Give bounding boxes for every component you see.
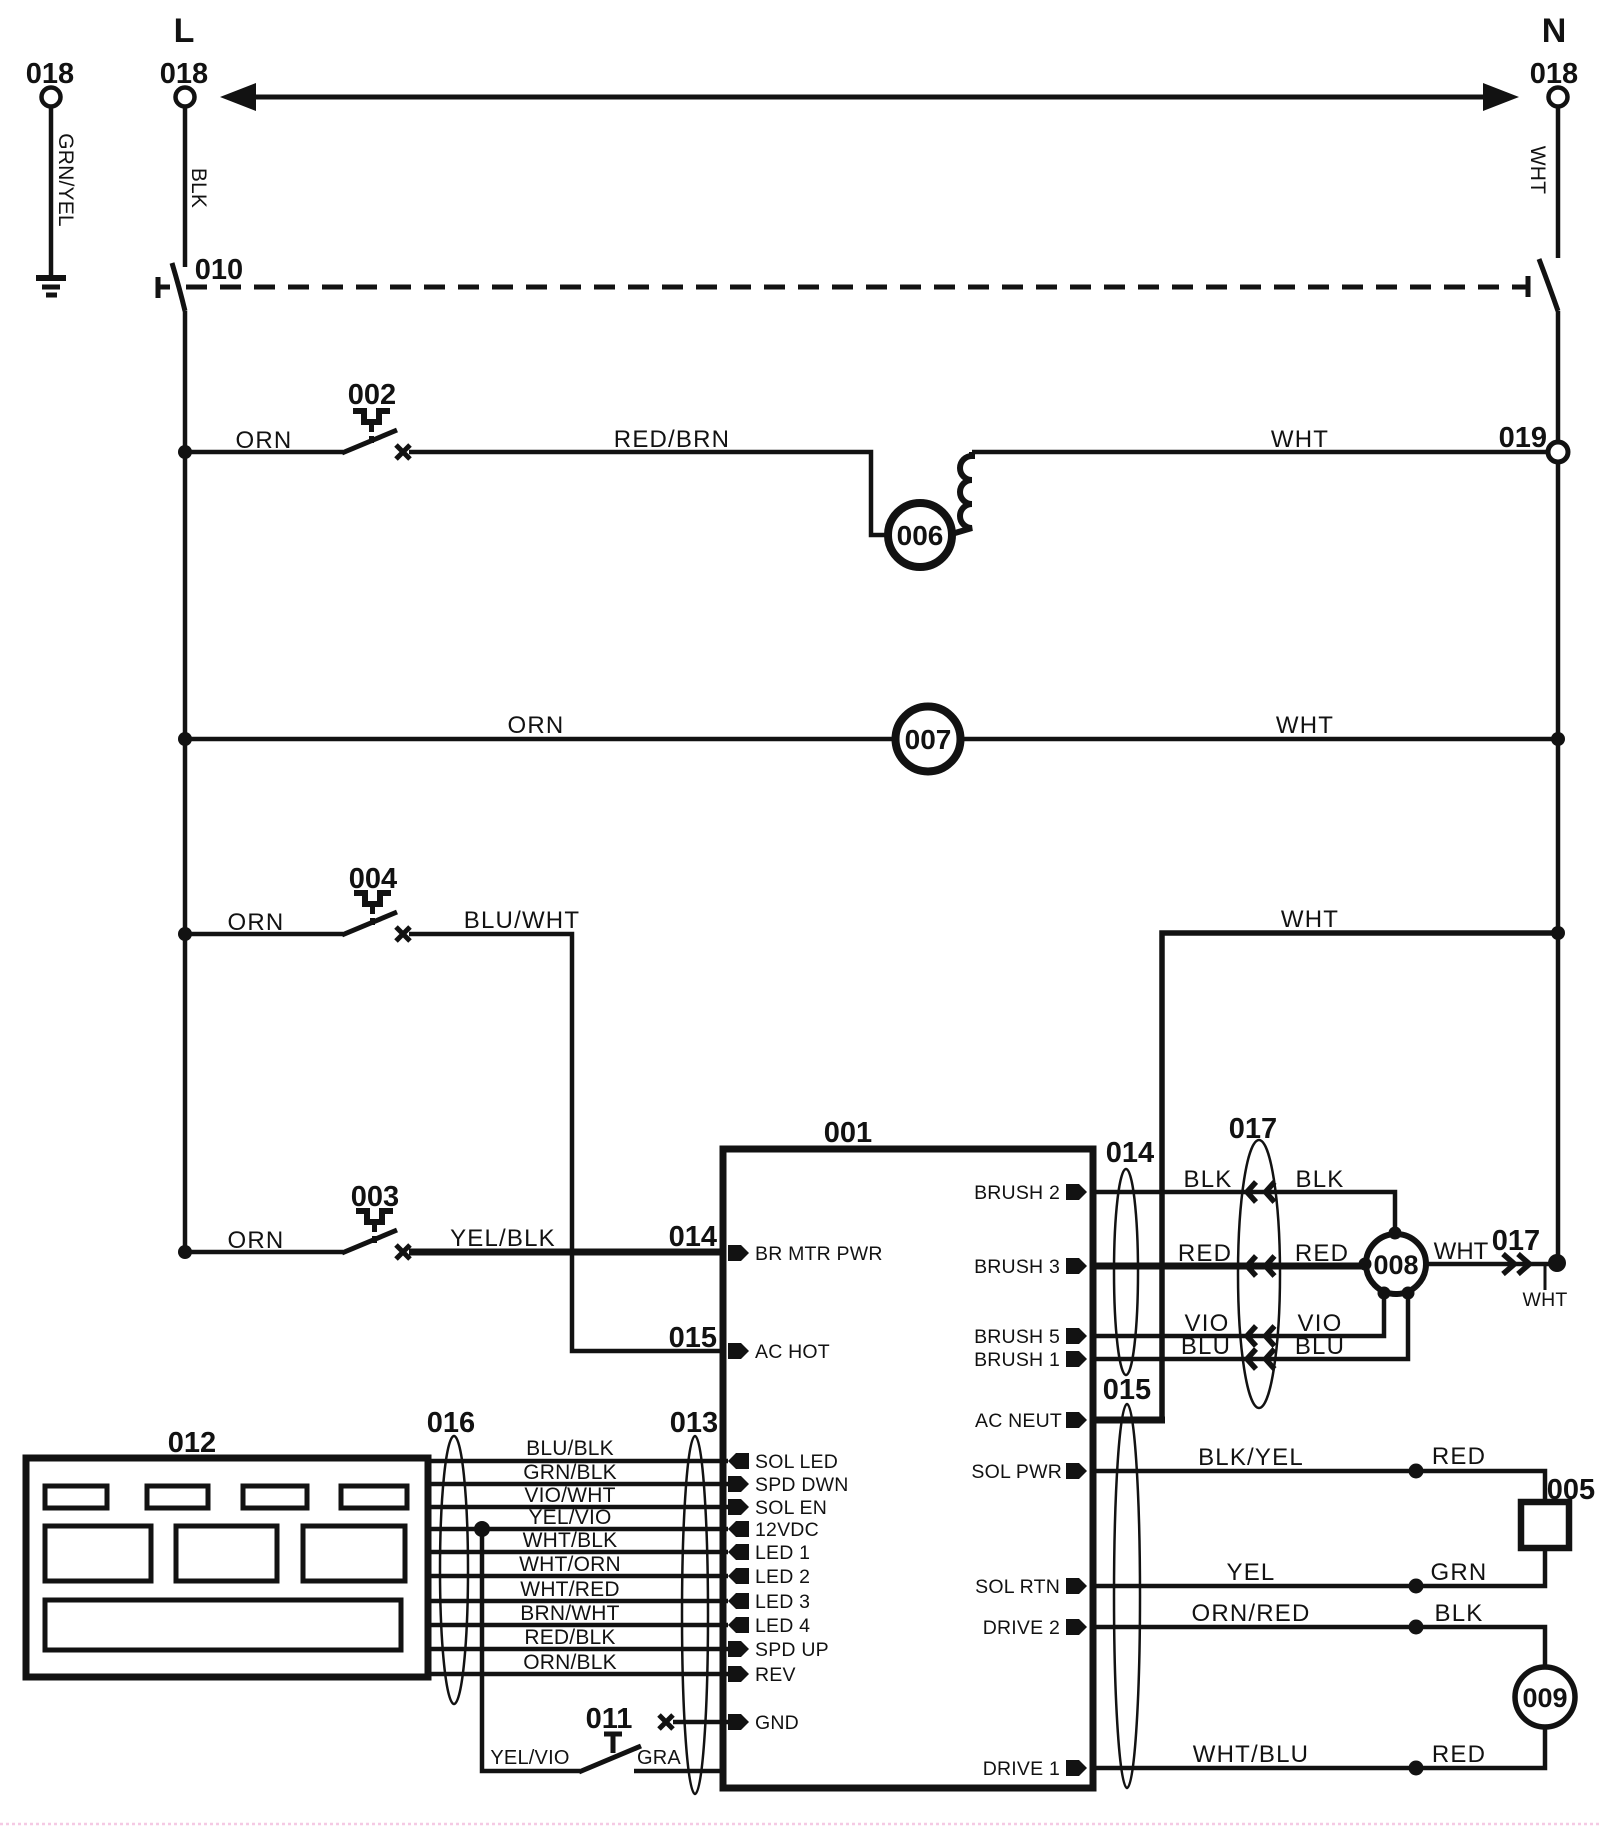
switch 004 blade bbox=[342, 912, 397, 935]
pin SOL RTN marker bbox=[1066, 1578, 1087, 1594]
node splice sol rtn bbox=[1409, 1579, 1424, 1594]
svg-text:014: 014 bbox=[1106, 1137, 1154, 1169]
svg-text:GRN: GRN bbox=[1431, 1559, 1488, 1586]
svg-text:WHT/ORN: WHT/ORN bbox=[519, 1553, 621, 1576]
control board 001 outline bbox=[723, 1149, 1093, 1788]
svg-text:GRN/BLK: GRN/BLK bbox=[523, 1461, 617, 1484]
switch 003 actuator stem bbox=[372, 1225, 377, 1243]
node 008 left terminal bbox=[1359, 1258, 1372, 1271]
double headed arrow L to N bbox=[220, 83, 1519, 111]
wire WHT vertical from N bbox=[1556, 107, 1561, 258]
connector 017 ellipse bbox=[1238, 1140, 1280, 1408]
node splice drive2 bbox=[1409, 1620, 1424, 1635]
SECTION: row3 bbox=[178, 863, 1565, 1420]
svg-text:WHT: WHT bbox=[1271, 426, 1329, 453]
svg-text:GRA: GRA bbox=[637, 1747, 681, 1769]
svg-text:WHT/BLK: WHT/BLK bbox=[523, 1529, 618, 1552]
svg-text:BR MTR PWR: BR MTR PWR bbox=[755, 1243, 883, 1265]
switch 002 actuator stem bbox=[369, 425, 374, 443]
svg-text:006: 006 bbox=[897, 520, 944, 551]
svg-text:WHT: WHT bbox=[1276, 712, 1334, 739]
svg-text:YEL: YEL bbox=[1227, 1559, 1276, 1586]
switch 002 actuator bbox=[353, 411, 390, 422]
svg-text:12VDC: 12VDC bbox=[755, 1519, 819, 1541]
svg-text:VIO/WHT: VIO/WHT bbox=[524, 1484, 615, 1507]
svg-text:WHT: WHT bbox=[1281, 906, 1339, 933]
pin AC HOT marker bbox=[728, 1343, 749, 1359]
terminal 018 N circle bbox=[1549, 88, 1568, 107]
chevrons WHT bbox=[1503, 1254, 1530, 1274]
svg-text:019: 019 bbox=[1499, 422, 1547, 454]
node 008 bottom-right terminal bbox=[1402, 1287, 1415, 1300]
svg-text:REV: REV bbox=[755, 1664, 796, 1686]
svg-text:GND: GND bbox=[755, 1712, 799, 1734]
svg-text:LED 3: LED 3 bbox=[755, 1591, 810, 1613]
fan motor 006 circle bbox=[888, 503, 952, 567]
switch 010 right blade bbox=[1539, 259, 1558, 311]
node junction right rail row3 bbox=[1551, 926, 1565, 940]
svg-text:017: 017 bbox=[1229, 1113, 1277, 1145]
svg-text:015: 015 bbox=[669, 1322, 717, 1354]
switch 010 dashed linkage bbox=[186, 285, 1521, 290]
node splice sol pwr bbox=[1409, 1464, 1424, 1479]
motor 007 circle bbox=[896, 707, 961, 772]
svg-text:RED/BLK: RED/BLK bbox=[524, 1626, 615, 1649]
svg-text:ORN: ORN bbox=[236, 427, 293, 454]
SECTION: row1 bbox=[178, 379, 1568, 567]
svg-text:BLU/BLK: BLU/BLK bbox=[526, 1437, 614, 1460]
svg-text:ORN: ORN bbox=[228, 909, 285, 936]
switch 003 blade bbox=[342, 1230, 397, 1253]
wire ORN/RED drive2 bbox=[1091, 1627, 1545, 1667]
wire WHT/BLK bbox=[428, 1550, 728, 1555]
svg-text:SPD DWN: SPD DWN bbox=[755, 1474, 848, 1496]
node 008 bottom-left terminal bbox=[1378, 1287, 1391, 1300]
coil winding of 006 bbox=[955, 452, 972, 533]
svg-text:BLK: BLK bbox=[1184, 1166, 1233, 1193]
node junction N rail WHT bbox=[1548, 1254, 1566, 1272]
switch 002 blade bbox=[342, 430, 397, 453]
wire to GND pin bbox=[673, 1720, 728, 1725]
node junction left rail row1 bbox=[178, 445, 192, 459]
svg-text:BLK: BLK bbox=[1296, 1166, 1345, 1193]
svg-text:SOL LED: SOL LED bbox=[755, 1451, 838, 1473]
SECTION: bottomleft bbox=[26, 1407, 728, 1794]
pin SPD UP marker bbox=[728, 1641, 749, 1657]
svg-text:RED/BRN: RED/BRN bbox=[614, 426, 730, 453]
node junction left rail row2 bbox=[178, 732, 192, 746]
svg-text:014: 014 bbox=[669, 1221, 717, 1253]
wire RED/BRN row1 bbox=[409, 452, 887, 535]
pin REV marker bbox=[728, 1666, 749, 1682]
svg-text:017: 017 bbox=[1492, 1225, 1540, 1257]
svg-text:RED: RED bbox=[1432, 1443, 1486, 1470]
svg-text:BRUSH 5: BRUSH 5 bbox=[974, 1326, 1060, 1348]
svg-text:001: 001 bbox=[824, 1117, 872, 1149]
svg-text:015: 015 bbox=[1103, 1374, 1151, 1406]
svg-text:BLK: BLK bbox=[187, 168, 210, 208]
wire RED brush3 bold bbox=[1091, 1263, 1364, 1270]
wire WHT row2 bbox=[963, 737, 1558, 742]
SECTION: row4 bbox=[178, 1181, 723, 1354]
pin 12VDC marker bbox=[728, 1521, 749, 1537]
switch 004 actuator bbox=[354, 893, 391, 904]
panel bottom rect bbox=[45, 1600, 401, 1650]
wire GRN/YEL vertical bbox=[49, 107, 54, 276]
pin BR MTR PWR marker bbox=[728, 1245, 749, 1261]
svg-text:WHT: WHT bbox=[1523, 1289, 1568, 1311]
solenoid 005 square bbox=[1521, 1502, 1569, 1548]
ground symbol bbox=[36, 278, 66, 295]
wire WHT row3 right bbox=[1162, 933, 1558, 1420]
svg-text:YEL/VIO: YEL/VIO bbox=[528, 1506, 611, 1529]
connector 014 ellipse bbox=[1114, 1169, 1138, 1375]
switch 011 blade bbox=[579, 1746, 641, 1772]
pin SOL PWR marker bbox=[1066, 1463, 1087, 1479]
wire BLU/WHT row3 to AC HOT bbox=[409, 934, 723, 1351]
wire ORN/BLK bbox=[428, 1672, 728, 1677]
svg-text:WHT/BLU: WHT/BLU bbox=[1193, 1741, 1309, 1768]
SECTION: rightside bbox=[1091, 1113, 1595, 1788]
svg-text:018: 018 bbox=[26, 58, 74, 90]
wire BLK brush2 bbox=[1091, 1192, 1395, 1232]
switch 003 actuator bbox=[356, 1211, 393, 1222]
svg-text:GRN/YEL: GRN/YEL bbox=[54, 133, 77, 227]
wire BLU/BLK bbox=[428, 1459, 728, 1464]
switch 011 contact x bbox=[659, 1715, 673, 1729]
pin DRIVE 1 marker bbox=[1066, 1760, 1087, 1776]
svg-text:WHT: WHT bbox=[1526, 146, 1549, 194]
wire YEL/BLK bold row4 bbox=[409, 1249, 723, 1256]
svg-text:ORN: ORN bbox=[508, 712, 565, 739]
wire left rail L bbox=[183, 311, 188, 1252]
switch 011 actuator T bbox=[604, 1734, 622, 1753]
wire ORN row3 bbox=[185, 932, 343, 937]
node junction left rail row4 bbox=[178, 1245, 192, 1259]
wire WHT/BLU drive1 bbox=[1091, 1727, 1545, 1768]
panel display rect 2 bbox=[176, 1526, 277, 1581]
svg-text:LED 2: LED 2 bbox=[755, 1566, 810, 1588]
pin BRUSH 3 marker bbox=[1066, 1258, 1087, 1274]
svg-text:YEL/BLK: YEL/BLK bbox=[450, 1225, 556, 1252]
switch 003 contact x bbox=[396, 1245, 410, 1259]
svg-text:SOL PWR: SOL PWR bbox=[971, 1461, 1062, 1483]
terminal 018 ground circle bbox=[42, 88, 61, 107]
wire YEL/VIO down to switch 011 bbox=[482, 1529, 580, 1771]
wire GRN/BLK bbox=[428, 1482, 728, 1487]
wire WHT/ORN bbox=[428, 1574, 728, 1579]
svg-text:L: L bbox=[174, 12, 195, 50]
pin BRUSH 1 marker bbox=[1066, 1351, 1087, 1367]
pin LED 2 marker bbox=[728, 1568, 749, 1584]
switch 002 contact x bbox=[396, 445, 410, 459]
wire ORN row1 bbox=[185, 450, 343, 455]
pin AC NEUT marker bbox=[1066, 1412, 1087, 1428]
panel button rect 1 bbox=[45, 1486, 107, 1508]
SECTION: row2 bbox=[178, 707, 1565, 772]
SECTION: top rails bbox=[26, 12, 1578, 1264]
terminal 018 L circle bbox=[176, 88, 195, 107]
panel display rect 1 bbox=[45, 1526, 151, 1581]
chevrons RED bbox=[1247, 1256, 1275, 1276]
wire ORN row2 bbox=[185, 737, 894, 742]
panel button rect 2 bbox=[147, 1486, 208, 1508]
scan artifact pink line bbox=[0, 1823, 1600, 1826]
wire WHT row1 bbox=[972, 450, 1548, 455]
wire RED/BLK bbox=[428, 1647, 728, 1652]
pin LED 3 marker bbox=[728, 1593, 749, 1609]
svg-text:018: 018 bbox=[1530, 58, 1578, 90]
chevrons BLU bbox=[1247, 1349, 1275, 1369]
connector 016 ellipse bbox=[440, 1436, 468, 1704]
svg-text:LED 4: LED 4 bbox=[755, 1615, 810, 1637]
svg-text:N: N bbox=[1542, 12, 1567, 50]
svg-text:BRN/WHT: BRN/WHT bbox=[520, 1602, 619, 1625]
svg-text:ORN/RED: ORN/RED bbox=[1191, 1600, 1310, 1627]
svg-text:009: 009 bbox=[1522, 1683, 1567, 1713]
panel button rect 3 bbox=[243, 1486, 307, 1508]
svg-text:BLK/YEL: BLK/YEL bbox=[1198, 1444, 1304, 1471]
svg-text:ORN/BLK: ORN/BLK bbox=[523, 1651, 617, 1674]
pin BRUSH 2 marker bbox=[1066, 1184, 1087, 1200]
chevrons BLK bbox=[1247, 1182, 1275, 1202]
pin SPD DWN marker bbox=[728, 1476, 749, 1492]
svg-text:005: 005 bbox=[1547, 1474, 1595, 1506]
node junction left rail row3 bbox=[178, 927, 192, 941]
pin BRUSH 5 marker bbox=[1066, 1328, 1087, 1344]
pin DRIVE 2 marker bbox=[1066, 1619, 1087, 1635]
switch 010 left contact tick bbox=[158, 277, 170, 298]
svg-text:RED: RED bbox=[1295, 1240, 1349, 1267]
svg-text:WHT: WHT bbox=[1434, 1238, 1489, 1265]
pin LED 1 marker bbox=[728, 1544, 749, 1560]
control panel 012 outline bbox=[26, 1458, 428, 1677]
svg-text:BRUSH 1: BRUSH 1 bbox=[974, 1349, 1060, 1371]
panel display rect 3 bbox=[303, 1526, 405, 1581]
svg-text:BRUSH 2: BRUSH 2 bbox=[974, 1182, 1060, 1204]
switch 010 right contact tick bbox=[1518, 276, 1528, 297]
wire VIO/WHT bbox=[428, 1505, 728, 1510]
wire right rail N bbox=[1556, 311, 1561, 1264]
svg-text:012: 012 bbox=[168, 1427, 216, 1459]
wire BLK/YEL sol pwr bbox=[1091, 1471, 1545, 1502]
switch 004 actuator stem bbox=[370, 907, 375, 925]
switch 004 contact x bbox=[396, 927, 410, 941]
svg-text:008: 008 bbox=[1373, 1250, 1418, 1280]
svg-text:SPD UP: SPD UP bbox=[755, 1639, 829, 1661]
switch 010 left blade bbox=[172, 263, 185, 311]
svg-text:BLK: BLK bbox=[1435, 1600, 1484, 1627]
svg-text:SOL RTN: SOL RTN bbox=[975, 1576, 1060, 1598]
connector 015 ellipse bbox=[1114, 1404, 1140, 1788]
svg-text:BLU: BLU bbox=[1295, 1333, 1345, 1360]
pin GND marker bbox=[728, 1714, 749, 1730]
svg-text:AC HOT: AC HOT bbox=[755, 1341, 830, 1363]
svg-text:ORN: ORN bbox=[228, 1227, 285, 1254]
panel button rect 4 bbox=[341, 1486, 407, 1508]
node splice drive1 bbox=[1409, 1761, 1424, 1776]
wire WHT from 008 to N rail bbox=[1426, 1262, 1558, 1267]
svg-text:YEL/VIO: YEL/VIO bbox=[490, 1747, 569, 1769]
pin SOL EN marker bbox=[728, 1499, 749, 1515]
wire ORN row4 bbox=[185, 1250, 343, 1255]
svg-text:LED 1: LED 1 bbox=[755, 1542, 810, 1564]
svg-text:AC NEUT: AC NEUT bbox=[975, 1410, 1062, 1432]
wire WHT/RED bbox=[428, 1599, 728, 1604]
wire VIO brush5 bbox=[1091, 1294, 1384, 1336]
svg-text:013: 013 bbox=[670, 1407, 718, 1439]
svg-text:011: 011 bbox=[586, 1703, 633, 1735]
wire BLK vertical from L bbox=[183, 107, 188, 267]
wire YEL/VIO bbox=[428, 1527, 728, 1532]
wire WHT stub leader bbox=[1544, 1266, 1547, 1290]
node splice YEL/VIO bbox=[474, 1521, 490, 1537]
wire BLU brush1 bbox=[1091, 1294, 1408, 1359]
pin LED 4 marker bbox=[728, 1617, 749, 1633]
wire GRA bbox=[634, 1769, 726, 1774]
svg-text:WHT/RED: WHT/RED bbox=[520, 1578, 619, 1601]
svg-text:DRIVE 1: DRIVE 1 bbox=[983, 1758, 1060, 1780]
wire BRN/WHT bbox=[428, 1623, 728, 1628]
connector 013 ellipse bbox=[682, 1436, 708, 1794]
node junction right rail row2 bbox=[1551, 732, 1565, 746]
terminal 019 circle bbox=[1548, 442, 1568, 462]
svg-text:010: 010 bbox=[195, 254, 243, 286]
svg-text:RED: RED bbox=[1178, 1240, 1232, 1267]
svg-text:BLU/WHT: BLU/WHT bbox=[464, 907, 580, 934]
svg-text:DRIVE 2: DRIVE 2 bbox=[983, 1617, 1060, 1639]
svg-text:RED: RED bbox=[1432, 1741, 1486, 1768]
SECTION: board bbox=[723, 1117, 1093, 1788]
svg-text:SOL EN: SOL EN bbox=[755, 1497, 827, 1519]
svg-text:BRUSH 3: BRUSH 3 bbox=[974, 1256, 1060, 1278]
svg-text:016: 016 bbox=[427, 1407, 475, 1439]
svg-text:BLU: BLU bbox=[1181, 1333, 1231, 1360]
svg-text:002: 002 bbox=[348, 379, 396, 411]
drive motor 009 circle bbox=[1515, 1667, 1575, 1727]
wire YEL sol rtn bbox=[1091, 1548, 1545, 1586]
svg-text:018: 018 bbox=[160, 58, 208, 90]
svg-text:007: 007 bbox=[905, 724, 952, 755]
chevrons VIO bbox=[1247, 1326, 1275, 1346]
pin SOL LED marker bbox=[728, 1453, 749, 1469]
node 008 top terminal bbox=[1389, 1227, 1402, 1240]
brush motor 008 circle bbox=[1366, 1234, 1426, 1294]
wire AC NEUT bold segment bbox=[1091, 1417, 1165, 1424]
